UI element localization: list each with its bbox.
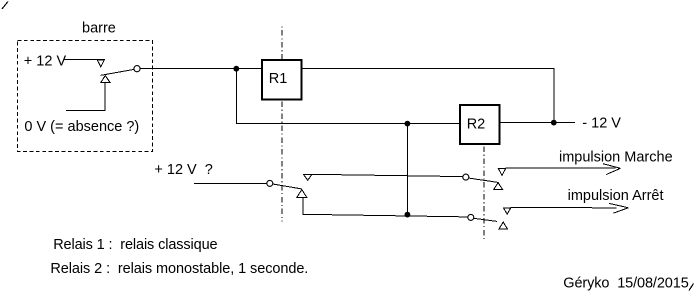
wire node A down [235,69,237,124]
signature Geryko date [563,276,689,292]
label +12V [24,53,67,69]
arrow impulsion Arret [511,203,629,213]
dash-dot centerline relay R2 [483,147,485,241]
relay coil R1 [262,60,302,100]
wire lever S3 [469,178,498,182]
svg-text:impulsion Marche: impulsion Marche [559,150,673,166]
label impulsion Marche [559,150,673,166]
wire lever S4 [474,218,497,221]
junction node -12V [551,120,557,126]
wire S2 NO to S3 pole [312,174,463,176]
wire +12V? feed to S2 [194,183,267,185]
pole circle S3 [463,174,469,180]
dash-dot centerline relay R1 [281,26,283,221]
dashed box barre [18,41,153,152]
contact NO S2 (down triangle) [304,174,313,180]
wire corner down to -12V node [553,69,555,123]
relay coil R2 [460,105,500,144]
pole circle S4 [468,214,474,220]
svg-text:Relais 2 : relais monostable,: Relais 2 : relais monostable, 1 seconde. [50,261,308,277]
wire +12V stub [64,59,105,61]
wire lever S2 [273,184,302,189]
junction node C [405,212,411,218]
svg-text:Relais 1 : relais classique: Relais 1 : relais classique [53,237,217,253]
wire bottom bus to R2 [236,122,460,124]
wire R2 to -12V stub [500,122,575,124]
wire R1 to top-right corner [302,68,555,70]
wire lever S1 [100,69,134,75]
junction node A [233,66,239,72]
stray slash mark bottom-right [689,284,694,291]
svg-text:0 V (= absence ?): 0 V (= absence ?) [24,119,139,135]
label +12V ? [154,162,212,178]
contact NO S3 (down triangle) [498,169,505,176]
svg-text:R1: R1 [269,71,288,87]
contact NC S2 (up triangle) [297,190,307,198]
svg-text:- 12 V: - 12 V [582,115,621,131]
wire S2 NC down and bottom bus to S4 pole [303,198,468,217]
contact NC S3 (up triangle) [494,183,503,190]
pole circle S2 [267,180,273,186]
pole circle S1 [134,66,140,72]
svg-text:barre: barre [82,21,116,37]
wire node B down to node C [406,124,408,215]
svg-text:R2: R2 [467,117,486,133]
label R1 [269,71,288,87]
svg-text:+ 12 V: + 12 V [24,53,67,69]
contact NO S4 (down triangle) [504,208,511,214]
svg-text:Géryko 15/08/2015: Géryko 15/08/2015 [563,276,689,292]
label barre [82,21,116,37]
svg-text:+ 12 V ?: + 12 V ? [154,162,212,178]
contact NC S4 (up triangle) [499,222,507,229]
note Relais 1 [53,237,217,253]
junction node B [405,121,411,127]
wire S1 pole to R1 [140,68,261,70]
label 0V [24,119,139,135]
contact NO switch S1 (down triangle) [97,60,104,67]
label impulsion Arret [568,188,664,204]
svg-text:impulsion Arrêt: impulsion Arrêt [568,188,664,204]
arrow impulsion Marche [506,164,621,175]
label R2 [467,117,486,133]
note Relais 2 [50,261,308,277]
contact NC switch S1 (up triangle) [101,76,110,83]
label -12V [582,115,621,131]
stray slash mark top-left [2,2,8,10]
wire 0V stub [66,83,105,111]
